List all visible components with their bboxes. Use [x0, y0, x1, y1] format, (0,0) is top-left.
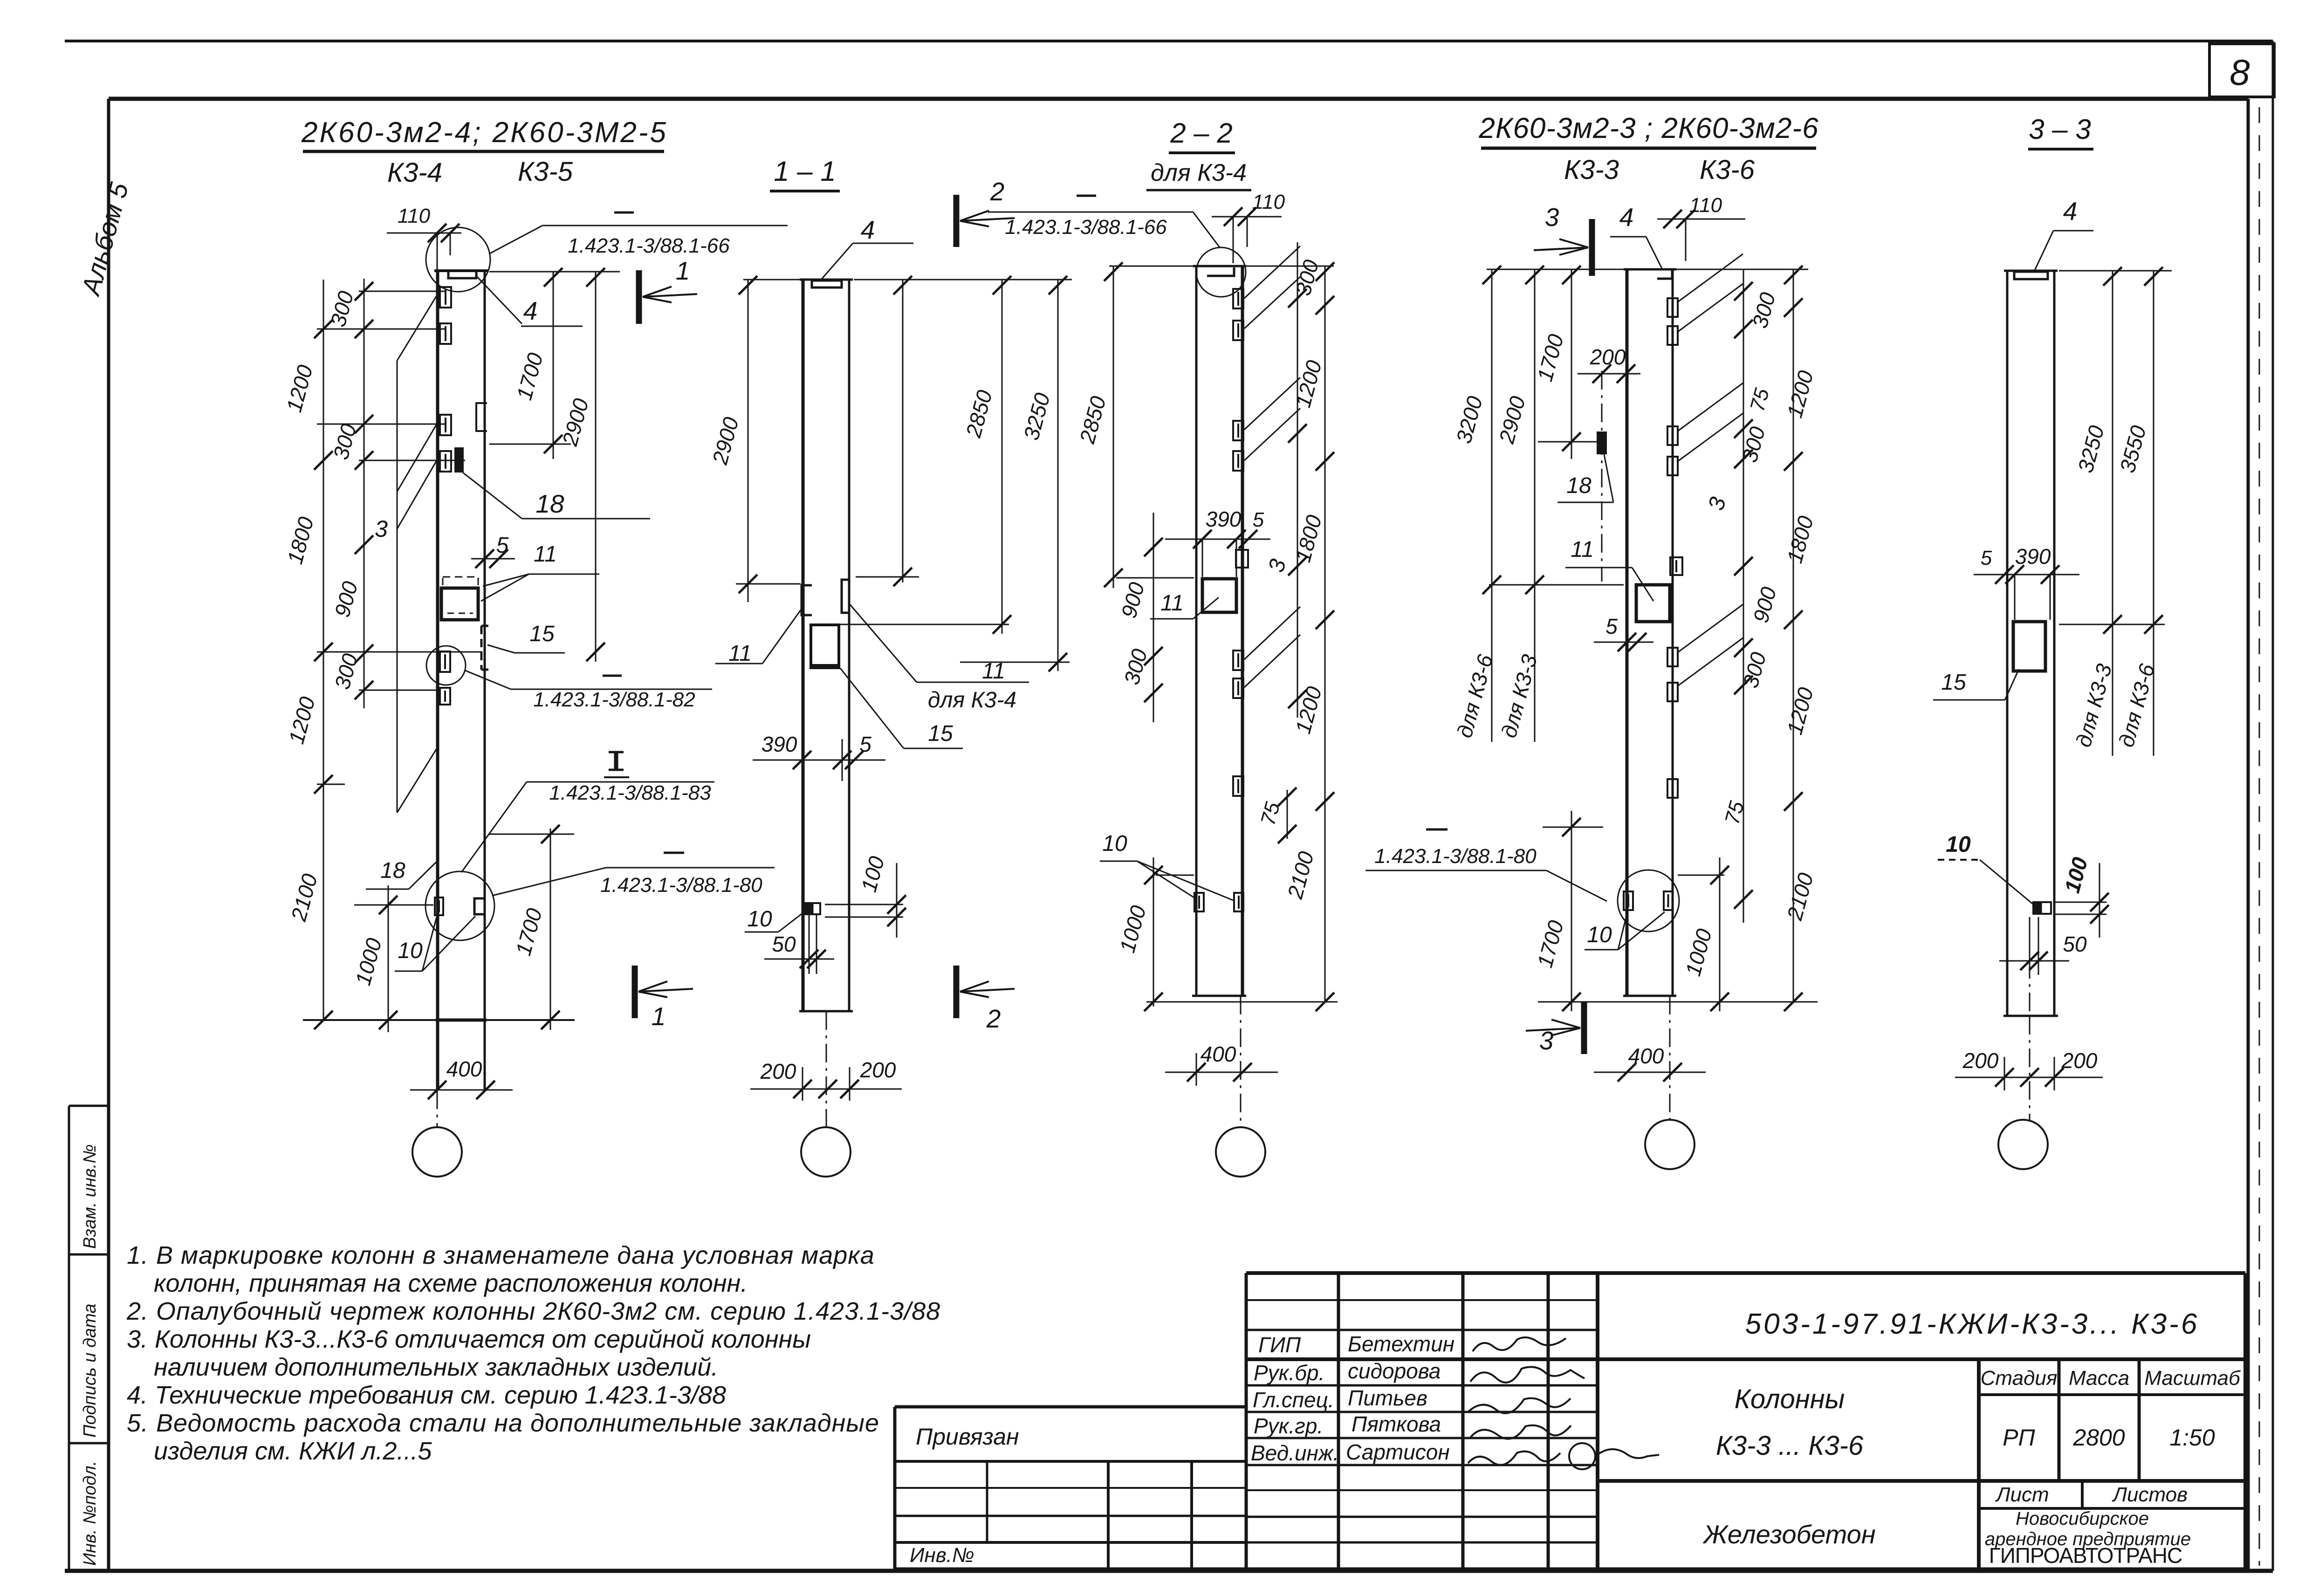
svg-text:сидорова: сидорова [1348, 1359, 1441, 1383]
fig1 left dim chain outer [323, 280, 324, 1020]
svg-text:Инв.№: Инв.№ [910, 1544, 974, 1567]
fig1 leader 1.423.1-3/88.1-80 [664, 852, 684, 854]
svg-text:Новосибирское: Новосибирское [2016, 1508, 2149, 1529]
page top trim line [65, 40, 2273, 42]
fig2 dim 100 [896, 863, 898, 938]
left table horizontals [895, 1487, 1245, 1489]
fig4 column body right edge [1672, 269, 1674, 996]
page bottom trim line [65, 1569, 2273, 1573]
right block frame [2243, 1273, 2247, 1569]
fig4 square opening 11 [1636, 585, 1670, 622]
fig5 dim 3250 [2112, 271, 2113, 634]
fig3 protruding plate 5 [1236, 550, 1248, 568]
fig1 dashed opening [443, 577, 478, 588]
right margin scan texture [2259, 107, 2260, 1566]
svg-text:К3-5: К3-5 [518, 157, 573, 187]
svg-text:1: 1 [676, 256, 690, 285]
svg-text:5: 5 [1605, 614, 1618, 638]
fig4 protruding plate [1670, 557, 1682, 575]
svg-text:15: 15 [928, 721, 953, 746]
fig2 column bottom face [799, 1010, 853, 1013]
fig5 column top face [2004, 270, 2058, 272]
fig4 extension 1255 [1489, 584, 1624, 586]
fig3 left dim 2850 [1113, 266, 1114, 588]
fig3 leader diagonals [1244, 246, 1300, 298]
svg-text:Листов: Листов [2112, 1483, 2188, 1506]
fig2 top extension left [743, 279, 800, 281]
svg-text:К3-3 ... К3-6: К3-3 ... К3-6 [1716, 1431, 1864, 1461]
fig2 column body right edge [848, 280, 851, 1011]
svg-text:11: 11 [728, 641, 752, 666]
svg-text:1. В маркировке колонн в зна: 1. В маркировке колонн в знаменателе дан… [127, 1241, 875, 1269]
fig5 dim 200 200 [1955, 1077, 2103, 1078]
svg-text:Пяткова: Пяткова [1352, 1412, 1441, 1436]
fig4 top extension right [1676, 269, 1808, 270]
svg-text:Масса: Масса [2069, 1367, 2129, 1390]
svg-text:200: 200 [760, 1059, 796, 1083]
svg-text:Рук.гр.: Рук.гр. [1254, 1414, 1323, 1438]
fig3 left mini chain [1153, 513, 1154, 722]
fig4 dim 400 [1594, 1072, 1706, 1073]
svg-text:3. Колонны К3-3...К3-6 отлич: 3. Колонны К3-3...К3-6 отличается от сер… [127, 1325, 811, 1353]
svg-text:50: 50 [2063, 932, 2087, 956]
svg-text:390: 390 [762, 732, 797, 756]
svg-text:1.423.1-3/88.1-80: 1.423.1-3/88.1-80 [600, 874, 762, 897]
fig3 header underline [1169, 151, 1235, 154]
fig3 column top face [1193, 265, 1246, 267]
fig1 right bracket upper [476, 403, 487, 431]
svg-text:18: 18 [535, 489, 564, 518]
svg-text:Железобетон: Железобетон [1702, 1520, 1875, 1549]
fig4 centerline plate18 [1601, 371, 1603, 582]
svg-text:110: 110 [1689, 194, 1722, 217]
svg-text:3: 3 [375, 516, 388, 542]
fig4 top cap plate 4 [1657, 270, 1672, 279]
svg-text:Инв. №подл.: Инв. №подл. [80, 1461, 100, 1566]
svg-text:Сартисон: Сартисон [1346, 1440, 1450, 1464]
svg-text:11: 11 [982, 659, 1005, 684]
gip table verticals [1245, 1273, 1248, 1569]
fig1 left plates row4 [440, 451, 451, 472]
fig3 column bottom face [1192, 995, 1246, 997]
svg-text:1.423.1-3/88.1-66: 1.423.1-3/88.1-66 [1005, 216, 1167, 239]
fig5 plate 10 [2033, 902, 2051, 914]
fig1 plates in bottom circle [435, 897, 443, 915]
fig5 square opening 15 [2013, 622, 2045, 671]
fig1 column body right edge [484, 271, 486, 1090]
svg-text:ГИПРОАВТОТРАНС: ГИПРОАВТОТРАНС [1989, 1543, 2182, 1568]
svg-text:РП: РП [2003, 1425, 2035, 1451]
side stamp box divider top [69, 1105, 109, 1107]
fig4 leader 1.423.1-3/88.1-80 [1426, 829, 1448, 831]
fig2 dim 2850 [1002, 280, 1003, 634]
fig2 leader 4 [821, 243, 853, 280]
fig3 top detail circle [1196, 247, 1246, 297]
svg-text:11: 11 [1571, 537, 1594, 562]
fig4 right chain outer [1793, 269, 1794, 1002]
fig1 detail circle bottom [425, 871, 494, 940]
fig5 axis circle [1998, 1120, 2048, 1169]
fig2 axis circle [801, 1127, 851, 1177]
svg-text:Привязан: Привязан [916, 1424, 1019, 1450]
svg-text:110: 110 [1252, 191, 1285, 213]
svg-text:1.423.1-3/88.1-80: 1.423.1-3/88.1-80 [1374, 845, 1537, 868]
svg-text:К3-4: К3-4 [387, 158, 442, 188]
svg-text:400: 400 [1628, 1044, 1664, 1068]
fig1 left plates row3 [440, 415, 451, 435]
side stamp box divider 1 [69, 1254, 109, 1256]
fig4 axis circle [1645, 1120, 1695, 1169]
fig3 dim 400 [1165, 1072, 1278, 1073]
fig4 left chain 2900 [1534, 269, 1536, 742]
svg-text:ГИП: ГИП [1258, 1333, 1301, 1357]
section mark 1 bottom [632, 966, 638, 1018]
fig1 top embedded plate 4 [448, 272, 476, 278]
fig4 column top face [1624, 268, 1676, 271]
svg-text:наличием дополнительных закл: наличием дополнительных закладных издели… [154, 1353, 718, 1381]
fig2 opening 15 [811, 625, 839, 668]
fig5 dim 3550 [2153, 271, 2154, 756]
drawing frame top border [109, 97, 2248, 101]
svg-text:1.423.1-3/88.1-82: 1.423.1-3/88.1-82 [533, 688, 695, 711]
svg-text:2К60-3м2-3 ; 2К60-3м2-6: 2К60-3м2-3 ; 2К60-3м2-6 [1478, 112, 1818, 144]
fig1 plate 18 bar [455, 448, 463, 472]
svg-text:200: 200 [1962, 1048, 1999, 1073]
section mark 3 top [1589, 219, 1595, 276]
svg-text:Стадия: Стадия [1981, 1367, 2058, 1390]
svg-text:колонн, принятая на схеме р: колонн, принятая на схеме расположения к… [154, 1269, 748, 1297]
fig4 dim 1000 right [1719, 857, 1721, 1011]
svg-text:1:50: 1:50 [2169, 1425, 2215, 1451]
fig3 column body left edge [1195, 266, 1198, 996]
fig1 callout parallelogram [397, 361, 398, 813]
section mark 2 top [954, 195, 960, 247]
svg-text:10: 10 [747, 907, 772, 932]
fig3 right chain outer [1324, 266, 1326, 1002]
svg-text:Масштаб: Масштаб [2144, 1367, 2241, 1390]
fig1 extension lines left [359, 291, 446, 292]
svg-text:200: 200 [860, 1058, 896, 1082]
fig3 top extension lines [1109, 266, 1194, 267]
svg-text:4: 4 [523, 296, 538, 325]
svg-text:2800: 2800 [2072, 1425, 2125, 1451]
fig1 label I and 1.423.1-3/88.1-83 [614, 752, 618, 770]
side stamp strip line [68, 1106, 70, 1571]
fig2 top extension right [854, 279, 1072, 281]
fig3 square opening 11 [1202, 579, 1236, 612]
fig2 unlabeled dim line [902, 280, 904, 582]
fig5 column body right edge [2053, 271, 2056, 1016]
fig1 axis centerline [437, 1090, 438, 1127]
signature circle stamp [1569, 1443, 1595, 1469]
svg-text:Вед.инж.: Вед.инж. [1251, 1441, 1339, 1465]
fig4 right plates [1667, 298, 1678, 317]
fig2 axis centerline [826, 1011, 827, 1127]
fig3 dim 390 5 [1165, 539, 1270, 540]
fig5 column bottom face [2003, 1015, 2058, 1017]
svg-text:8: 8 [2230, 52, 2250, 93]
svg-text:для К3-4: для К3-4 [1151, 159, 1247, 186]
fig3 leader 1.423.1-3/88.1-66 [988, 212, 1193, 213]
fig3 bottom plate pair [1194, 893, 1204, 911]
fig3 axis centerline [1240, 996, 1242, 1127]
section mark 1 top [636, 270, 642, 324]
fig4 left chain 1700 top [1571, 269, 1572, 459]
svg-text:Взам. инв.№: Взам. инв.№ [80, 1144, 100, 1249]
svg-text:503-1-97.91-КЖИ-К3-3... К3-6: 503-1-97.91-КЖИ-К3-3... К3-6 [1745, 1308, 2200, 1340]
svg-text:10: 10 [1102, 831, 1127, 856]
fig1 dim 5 and label 11 [471, 558, 515, 560]
fig4 right chain inner [1743, 269, 1744, 923]
svg-text:2. Опалубочный чертеж колонн: 2. Опалубочный чертеж колонны 2К60-3м2 с… [126, 1297, 940, 1325]
fig3 axis circle [1216, 1127, 1265, 1177]
svg-text:1 – 1: 1 – 1 [774, 156, 836, 187]
svg-text:390: 390 [1206, 507, 1242, 531]
fig4 left chain 1700 bottom [1571, 811, 1572, 1011]
fig1 leader 18 [522, 518, 650, 520]
fig2 dim 390 5 [753, 760, 885, 761]
fig3 column body right edge [1241, 266, 1244, 996]
fig1 leader 1.423.1-3/88.1-82 [603, 675, 622, 677]
svg-text:5. Ведомость расхода стали: 5. Ведомость расхода стали на дополнител… [127, 1409, 879, 1437]
svg-text:К3-6: К3-6 [1700, 155, 1755, 185]
fig5 top extension [2059, 270, 2172, 272]
fig1 header underline [303, 150, 664, 153]
fig1 left plates row2 [440, 323, 451, 344]
section mark 3 bottom [1581, 1002, 1587, 1054]
svg-text:2: 2 [990, 177, 1005, 206]
svg-text:18: 18 [380, 858, 405, 883]
fig5 dim 100 [2099, 863, 2100, 938]
svg-text:110: 110 [398, 205, 431, 227]
fig5 axis centerline [2029, 927, 2031, 1016]
right page trim line [2272, 41, 2274, 1571]
svg-text:1.423.1-3/88.1-66: 1.423.1-3/88.1-66 [568, 234, 730, 257]
svg-text:50: 50 [772, 932, 796, 956]
fig1 circled plate pair mid [440, 651, 450, 672]
fig4 column body left edge [1626, 269, 1629, 996]
fig1 right dim 1700 bottom [550, 829, 551, 1030]
privyazan box [895, 1405, 1245, 1409]
fig5 header underline [2028, 148, 2093, 151]
fig2 bracket right edge [842, 580, 849, 613]
fig4 column bottom face [1623, 995, 1676, 997]
fig4 header underline [1481, 147, 1816, 150]
svg-text:11: 11 [534, 542, 557, 567]
fig1 dim line 1000 [388, 885, 389, 1032]
svg-text:1.423.1-3/88.1-83: 1.423.1-3/88.1-83 [549, 781, 711, 804]
fig1 bracket 15 right edge [480, 626, 483, 670]
title block outer top line [1246, 1271, 2245, 1275]
fig1 column top face [434, 269, 488, 272]
svg-text:18: 18 [1566, 473, 1592, 498]
svg-text:Колонны: Колонны [1735, 1384, 1845, 1414]
svg-text:2 – 2: 2 – 2 [1170, 117, 1232, 149]
svg-text:11: 11 [1160, 591, 1184, 616]
section mark 2 bottom [954, 966, 960, 1018]
svg-text:4: 4 [2063, 197, 2078, 226]
svg-text:4: 4 [861, 215, 875, 244]
svg-text:3: 3 [1545, 203, 1559, 232]
svg-text:4: 4 [1619, 203, 1634, 232]
svg-text:2: 2 [986, 1004, 1001, 1033]
left table verticals [986, 1461, 988, 1542]
fig3 header underline 2 [1146, 189, 1251, 192]
fig3 top cap plate [1207, 267, 1234, 276]
sheet number box [2209, 44, 2274, 97]
fig1 axis circle [412, 1127, 462, 1177]
fig1 solid opening 11 [441, 588, 478, 620]
fig2 dim 2900 left [748, 280, 749, 602]
fig1 column body left edge [436, 271, 439, 1090]
svg-text:400: 400 [446, 1057, 482, 1081]
fig3 bottom extension [1146, 1001, 1338, 1003]
svg-text:5: 5 [859, 732, 871, 756]
svg-text:3: 3 [1539, 1026, 1554, 1055]
fig3 right plates [1233, 289, 1243, 308]
svg-text:400: 400 [1201, 1042, 1236, 1066]
svg-text:для К3-4: для К3-4 [928, 688, 1016, 712]
fig1 dim 400 [410, 1089, 513, 1091]
svg-text:Бетехтин: Бетехтин [1348, 1332, 1454, 1356]
svg-text:5: 5 [1253, 508, 1264, 531]
fig4 top extension left [1487, 269, 1624, 270]
drawing frame left border [107, 99, 110, 1571]
svg-text:200: 200 [2061, 1048, 2098, 1073]
svg-text:5: 5 [496, 533, 509, 558]
svg-text:10: 10 [398, 938, 423, 963]
fig2 column body left edge [802, 280, 805, 1011]
svg-text:Лист: Лист [1995, 1483, 2049, 1506]
svg-text:3 – 3: 3 – 3 [2029, 114, 2091, 145]
svg-text:1: 1 [652, 1002, 666, 1031]
fig1 left plates row1 [440, 287, 451, 308]
svg-text:Рук.бр.: Рук.бр. [1254, 1361, 1324, 1385]
svg-text:Гл.спец.: Гл.спец. [1253, 1388, 1334, 1412]
fig2 dim 200 200 [750, 1089, 902, 1090]
fig1 right dim 1700 top [489, 271, 620, 273]
fig2 column top face [800, 279, 853, 281]
fig2 bracket 11 left edge [802, 585, 812, 615]
svg-text:200: 200 [1590, 345, 1626, 369]
fig1 top detail circle [426, 227, 490, 292]
svg-text:4. Технические требования с: 4. Технические требования см. серию 1.42… [127, 1381, 726, 1409]
fig3 right chain inner [1297, 242, 1298, 718]
signature squiggles [1473, 1337, 1566, 1351]
fig5 extension 1340 [2059, 624, 2165, 625]
fig1 leader 1.423.1-3/88.1-66 [542, 225, 788, 226]
svg-text:изделия см. КЖИ л.2...5: изделия см. КЖИ л.2...5 [154, 1437, 432, 1465]
fig4 plate 18 [1598, 432, 1606, 453]
fig4 bottom plate pair circled [1624, 891, 1633, 910]
fig2 header underline [770, 190, 840, 192]
svg-text:5: 5 [1981, 547, 1992, 569]
fig5 column body left edge [2006, 271, 2009, 1016]
drawing frame right border [2247, 99, 2250, 1571]
title block bottom line [895, 1568, 2245, 1572]
fig4 axis centerline [1669, 996, 1671, 1120]
fig4 plate leader diagonals [1678, 254, 1743, 302]
gip table horizontals [1246, 1299, 1598, 1301]
fig3 dim 75 small [1287, 790, 1288, 839]
fig1 right dim 2900 [595, 272, 597, 662]
fig1 column bottom face [436, 1019, 487, 1022]
svg-text:15: 15 [529, 622, 555, 646]
svg-text:10: 10 [1946, 832, 1971, 857]
svg-text:Питьев: Питьев [1348, 1386, 1427, 1410]
fig1 leader 4 [476, 276, 522, 324]
svg-text:Подпись и дата: Подпись и дата [80, 1304, 100, 1438]
svg-text:390: 390 [2015, 544, 2051, 569]
stage mass scale dividers [1977, 1359, 1981, 1569]
fig5 top cap plate [2014, 272, 2048, 279]
svg-text:К3-3: К3-3 [1564, 155, 1619, 185]
svg-text:2К60-3м2-4; 2К60-3М2-5: 2К60-3м2-4; 2К60-3М2-5 [301, 116, 668, 149]
svg-text:15: 15 [1941, 670, 1966, 695]
fig4 bottom extension [1538, 1001, 1818, 1003]
fig2 top embedded plate 4 [812, 281, 842, 288]
fig2 plate 10 [805, 903, 820, 914]
fig1 left dim chain inner [364, 279, 365, 708]
fig3 dim 1000 [1153, 857, 1154, 1007]
svg-text:10: 10 [1587, 923, 1612, 947]
side stamp box divider 2 [69, 1442, 109, 1445]
fig5 dim 5 390 [1974, 574, 2079, 575]
fig2 dim 3250 [1057, 280, 1059, 671]
fig4 left chain 3200 [1491, 269, 1493, 742]
